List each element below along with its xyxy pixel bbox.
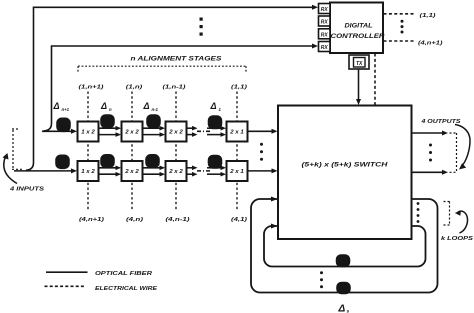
wire row1 input xyxy=(42,130,73,132)
dots between tap wires xyxy=(200,18,203,36)
fiber coil row1 stage n xyxy=(101,115,114,128)
arrows row1 continuation xyxy=(192,126,198,137)
svg-text:Δ: Δ xyxy=(338,304,346,313)
wires row1 into box4 xyxy=(207,128,223,134)
dots between loop returns right side xyxy=(417,202,420,223)
svg-text:2 x 2: 2 x 2 xyxy=(168,130,183,136)
svg-text:(4,n-1): (4,n-1) xyxy=(166,217,190,223)
wires row4 box3 out xyxy=(187,168,195,174)
svg-text:DIGITAL: DIGITAL xyxy=(345,23,373,30)
svg-text:Δ: Δ xyxy=(100,101,107,111)
svg-text:1 x 2: 1 x 2 xyxy=(81,169,95,175)
arrows into stage (4,1) xyxy=(221,166,227,177)
svg-text:(5+k) x (5+k) SWITCH: (5+k) x (5+k) SWITCH xyxy=(302,162,389,169)
wire row1 to switch xyxy=(248,130,275,132)
dash-dot continuation row1 xyxy=(197,130,210,132)
fiber coil row1 stage n+1 xyxy=(57,118,70,131)
svg-text:Δ: Δ xyxy=(53,101,60,111)
dash-dot continuation row4 xyxy=(197,170,210,172)
label n alignment stages xyxy=(131,55,223,62)
wires row4 box1 to box2 xyxy=(99,168,120,174)
arrows into stage (4,n) xyxy=(116,166,122,177)
wire output 4 xyxy=(412,171,445,173)
svg-text:TX: TX xyxy=(356,61,363,67)
dots between switch inputs xyxy=(260,143,263,161)
arrow into RX4 xyxy=(312,44,318,49)
dots between controller outputs xyxy=(401,20,404,34)
svg-text:CONTROLLER: CONTROLLER xyxy=(331,33,385,40)
svg-text:n ALIGNMENT STAGES: n ALIGNMENT STAGES xyxy=(131,55,223,62)
svg-text:RX: RX xyxy=(321,32,329,38)
svg-text:2 x 2: 2 x 2 xyxy=(124,130,139,136)
value label delta_n+1 xyxy=(53,101,70,112)
node label (4,n+1) xyxy=(79,217,104,223)
stage box (4,n) 2x2 xyxy=(122,161,143,181)
svg-text:(1,n): (1,n) xyxy=(126,84,143,90)
value label delta_s xyxy=(338,304,350,313)
stage box (1,n+1) 1x2 xyxy=(78,122,99,142)
label k loops xyxy=(441,236,473,242)
arrow row1 into switch xyxy=(272,129,278,134)
wire output 1 xyxy=(412,132,445,134)
stage box (1,1) 2x1 xyxy=(227,122,248,142)
arrows row4 continuation xyxy=(192,166,198,177)
node label (1,1) xyxy=(231,84,247,90)
svg-text:ELECTRICAL WIRE: ELECTRICAL WIRE xyxy=(95,286,158,292)
value label delta_1 xyxy=(210,101,222,112)
dots between outputs xyxy=(429,144,432,162)
svg-text:n+1: n+1 xyxy=(62,107,70,112)
wire row4 to switch xyxy=(248,170,275,172)
arrow into RX1 xyxy=(312,5,318,10)
fiber coil row1 stage n-1 xyxy=(147,115,160,128)
switch U2 label xyxy=(302,162,389,169)
svg-text:2 x 2: 2 x 2 xyxy=(168,169,183,175)
k loops bracket xyxy=(444,202,450,226)
k loops callout arrow xyxy=(458,211,468,233)
4 inputs bracket xyxy=(12,129,22,169)
svg-text:n-1: n-1 xyxy=(152,107,159,112)
4 outputs bracket xyxy=(450,133,457,173)
wires row4 box2 to box3 xyxy=(143,168,164,174)
wires row1 box2 to box3 xyxy=(143,128,164,134)
digital controller label xyxy=(331,23,385,40)
electrical wire column 3 xyxy=(175,92,177,212)
wires row1 box3 out xyxy=(187,128,195,134)
fiber coil row4 stage 1 xyxy=(209,156,222,169)
svg-text:RX: RX xyxy=(321,7,329,13)
stage box (4,n+1) 1x2 xyxy=(78,161,99,181)
switch U2 (5+k)x(5+k) optical switch xyxy=(278,106,412,240)
arrows into stage (4,n-1) xyxy=(160,166,166,177)
receiver RX1 xyxy=(319,4,331,14)
node label (4,n) xyxy=(126,217,143,223)
stage box (4,n-1) 2x2 xyxy=(166,161,187,181)
svg-text:RX: RX xyxy=(321,20,329,26)
arrow into stage (4,n+1) xyxy=(71,168,77,173)
electrical wire controller to labels (1,1) xyxy=(384,13,416,15)
stage box (1,n-1) 2x2 xyxy=(166,122,187,142)
wire row4 input xyxy=(14,170,73,172)
dots between loops xyxy=(320,271,323,288)
electrical wire controller to switch xyxy=(374,54,376,106)
svg-text:4 OUTPUTS: 4 OUTPUTS xyxy=(420,119,460,125)
svg-text:OPTICAL FIBER: OPTICAL FIBER xyxy=(95,271,153,277)
stage box (4,1) 2x1 xyxy=(227,161,248,181)
legend electrical wire sample xyxy=(45,285,87,287)
fiber coil row4 stage n xyxy=(101,155,114,168)
label 4 outputs xyxy=(420,119,460,125)
svg-text:s: s xyxy=(347,310,350,313)
svg-text:k LOOPS: k LOOPS xyxy=(441,236,473,242)
fiber coil row4 stage n-1 xyxy=(146,155,159,168)
svg-text:2 x 1: 2 x 1 xyxy=(229,169,244,175)
electrical wire column 2 xyxy=(131,92,133,212)
delay coil on inner loop xyxy=(337,255,350,267)
loop L1 inner fiber loop xyxy=(264,226,426,267)
n alignment stages bracket xyxy=(78,66,246,73)
electrical wire column 4 xyxy=(236,92,238,212)
node label (4,n+1) top right xyxy=(418,41,443,47)
4 outputs callout arrow xyxy=(455,125,470,165)
node label (1,n-1) xyxy=(163,84,186,90)
svg-text:4 INPUTS: 4 INPUTS xyxy=(9,186,44,192)
legend label optical fiber xyxy=(95,271,153,277)
receiver RX3 xyxy=(319,29,331,39)
arrow outer loop into switch xyxy=(271,197,278,202)
delay coil on outer loop xyxy=(337,283,350,294)
svg-text:(1,n-1): (1,n-1) xyxy=(163,84,186,90)
loop L2 outer fiber loop xyxy=(251,199,438,293)
node label (4,n-1) xyxy=(166,217,190,223)
node label (1,n) xyxy=(126,84,143,90)
svg-text:1 x 2: 1 x 2 xyxy=(81,130,95,136)
arrow output 1 xyxy=(442,131,448,136)
label 4 inputs xyxy=(9,186,44,192)
svg-text:(4,n): (4,n) xyxy=(126,217,143,223)
wires row1 box1 to box2 xyxy=(99,128,120,134)
svg-text:(1,1): (1,1) xyxy=(420,13,436,19)
arrows into stage (1,1) xyxy=(221,126,227,137)
digital controller U1 xyxy=(330,3,383,54)
svg-text:(1,n+1): (1,n+1) xyxy=(79,84,104,90)
value label delta_n-1 xyxy=(143,101,159,112)
svg-text:2 x 2: 2 x 2 xyxy=(124,169,139,175)
wire controller tap row 1 xyxy=(44,46,314,131)
electrical wire column 1 xyxy=(87,92,89,212)
svg-text:(4,n+1): (4,n+1) xyxy=(418,41,443,47)
svg-text:(4,n+1): (4,n+1) xyxy=(79,217,104,223)
wire controller tap row 4 xyxy=(26,7,313,170)
node label (4,1) xyxy=(231,217,247,223)
fiber coil row4 stage n+1 xyxy=(56,155,69,168)
svg-text:(4,1): (4,1) xyxy=(231,217,247,223)
transmitter TX xyxy=(349,55,369,69)
receiver RX2 xyxy=(319,16,331,26)
receiver RX4 xyxy=(319,42,331,52)
arrows into stage (1,n-1) xyxy=(160,126,166,137)
value label delta_n xyxy=(100,101,112,112)
node label (1,1) top right xyxy=(420,13,436,19)
svg-text:2 x 1: 2 x 1 xyxy=(229,130,244,136)
svg-text:Δ: Δ xyxy=(143,101,150,111)
arrow output 4 xyxy=(442,170,448,175)
arrow TX wire into switch xyxy=(356,99,361,105)
wires row4 into box4 xyxy=(207,168,223,174)
arrow inner loop into switch xyxy=(271,224,278,229)
4 inputs callout arrow xyxy=(4,157,17,184)
electrical wire controller to label (4,n+1) xyxy=(384,40,416,42)
arrow into stage (1,n+1) xyxy=(71,129,77,134)
svg-text:n: n xyxy=(109,107,112,112)
svg-text:Δ: Δ xyxy=(210,101,217,111)
legend label electrical wire xyxy=(95,286,158,292)
svg-text:RX: RX xyxy=(321,45,329,51)
node label (1,n+1) xyxy=(79,84,104,90)
arrows into stage (1,n) xyxy=(116,126,122,137)
stage box (1,n) 2x2 xyxy=(122,122,143,142)
svg-text:(1,1): (1,1) xyxy=(231,84,247,90)
arrow row4 into switch xyxy=(272,168,278,173)
legend optical fiber sample xyxy=(46,271,88,273)
svg-text:1: 1 xyxy=(219,107,222,112)
fiber coil row1 stage 1 xyxy=(209,116,222,129)
wire TX to switch xyxy=(358,69,360,101)
